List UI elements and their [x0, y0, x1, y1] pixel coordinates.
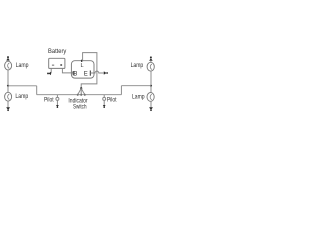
- svg-text:L: L: [81, 63, 84, 69]
- battery minus sign: [52, 64, 54, 66]
- wire right branch horizontal: [121, 85, 151, 87]
- svg-text:E: E: [84, 71, 88, 77]
- node right junction: [150, 85, 152, 87]
- node top-left earth dot: [7, 56, 9, 58]
- wire left top arrow stem: [7, 60, 9, 61]
- battery box: [49, 58, 65, 68]
- lamp RF filament: [150, 64, 152, 70]
- pilot lamp left stub: [56, 95, 58, 98]
- node top-right earth dot: [150, 56, 152, 58]
- wire battery minus stub: [50, 68, 52, 73]
- pilot lamp right bulb: [103, 97, 106, 100]
- lamp RF (right front) bulb: [147, 62, 154, 71]
- switch blade middle: [80, 88, 82, 94]
- svg-text:Lamp: Lamp: [15, 94, 28, 100]
- wire battery plus to flasher B: [62, 68, 71, 73]
- svg-text:Lamp: Lamp: [131, 63, 144, 69]
- svg-text:Lamp: Lamp: [132, 95, 145, 101]
- lamp RR filament: [150, 94, 152, 100]
- lamp RR (right rear) bulb: [147, 93, 154, 102]
- wire left branch vertical: [36, 86, 38, 95]
- node battery earth dot: [47, 72, 49, 74]
- pilot right arrowhead (down): [103, 105, 106, 107]
- svg-text:Pilot: Pilot: [44, 97, 54, 103]
- right bottom arrowhead (down): [149, 107, 153, 110]
- node switch contact left: [77, 94, 79, 96]
- pilot lamp right stub: [103, 95, 105, 98]
- flasher unit box: [71, 61, 94, 78]
- battery plus sign: [60, 64, 62, 66]
- wire bottom bus: [37, 94, 122, 96]
- wire lamp LF to junction: [7, 70, 9, 86]
- lamp LR (left rear) bulb: [5, 92, 12, 101]
- right top arrowhead (up): [149, 58, 153, 61]
- wire lamp RR to earth: [150, 101, 152, 107]
- node left bottom earth dot: [7, 109, 9, 111]
- svg-text:Lamp: Lamp: [16, 63, 29, 69]
- lamp LR filament: [8, 94, 10, 100]
- pilot lamp right earth stem: [103, 100, 105, 105]
- node right bottom earth dot: [150, 109, 152, 111]
- node pilot left earth dot: [57, 106, 59, 108]
- wire right branch vertical: [120, 86, 122, 95]
- pilot lamp left bulb: [56, 97, 59, 100]
- flasher terminal tick E: [89, 71, 91, 76]
- switch blade left: [78, 88, 82, 94]
- lamp LF (left front) bulb: [5, 61, 12, 70]
- left bottom arrowhead (down): [6, 107, 10, 110]
- pilot lamp left earth stem: [56, 100, 58, 105]
- wire left branch horizontal: [8, 85, 37, 87]
- node left junction: [7, 85, 9, 87]
- wire lamp LR from junction: [7, 86, 9, 93]
- wire lamp RF to junction: [150, 71, 152, 86]
- E earth arrowhead (right): [104, 71, 107, 74]
- wire right top arrow stem: [150, 61, 152, 63]
- flasher terminal tick L: [81, 60, 83, 62]
- wire E to earth with hop: [94, 71, 104, 73]
- wire lamp RR from junction: [150, 86, 152, 93]
- node pilot right earth dot: [103, 106, 105, 108]
- node switch apex dot: [80, 87, 82, 89]
- svg-text:B: B: [73, 71, 77, 77]
- lamp LF filament: [8, 63, 10, 69]
- svg-text:Battery: Battery: [48, 49, 66, 55]
- flasher terminal tick B: [71, 72, 73, 74]
- node switch contact right: [84, 94, 86, 96]
- wire lamp LR to earth: [7, 101, 9, 107]
- svg-text:Switch: Switch: [73, 104, 87, 110]
- svg-text:Pilot: Pilot: [107, 97, 117, 103]
- node E earth dot: [106, 72, 108, 74]
- node switch contact middle: [80, 94, 82, 96]
- switch blade right: [81, 88, 85, 94]
- wire L loop up and over: [81, 53, 97, 89]
- battery earth arrowhead (left): [48, 72, 51, 75]
- pilot left arrowhead (down): [56, 105, 59, 107]
- left top arrowhead (up): [6, 58, 10, 61]
